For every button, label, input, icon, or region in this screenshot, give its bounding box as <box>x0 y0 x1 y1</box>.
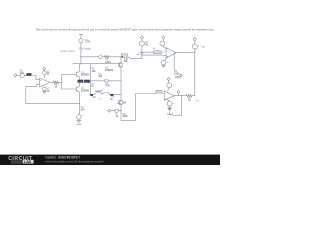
svg-text:5V: 5V <box>47 91 50 93</box>
svg-text:2N3904: 2N3904 <box>81 75 90 77</box>
svg-text:SIN: SIN <box>20 73 24 75</box>
svg-text:httb://circuitlab.com/c/2h4mxz: httb://circuitlab.com/c/2h4mxza/ansvmosf… <box>46 159 104 163</box>
svg-text:1A: 1A <box>116 115 119 118</box>
svg-text:100k: 100k <box>123 116 129 118</box>
svg-text:100k: 100k <box>174 74 180 76</box>
svg-text:This circuit uses an op-amp dr: This circuit uses an op-amp driving a pu… <box>36 28 215 32</box>
svg-text:-: - <box>167 50 168 53</box>
svg-text:-: - <box>41 85 42 88</box>
svg-text:5V: 5V <box>47 74 50 76</box>
svg-text:2N3906: 2N3906 <box>105 70 114 72</box>
svg-text:SIN: SIN <box>81 109 85 111</box>
svg-text:3.3V supply: 3.3V supply <box>79 48 92 51</box>
svg-text:2N3906: 2N3906 <box>81 90 90 92</box>
svg-text:LAB: LAB <box>24 160 32 164</box>
svg-text:out: out <box>202 46 206 49</box>
svg-text:gate drive: gate drive <box>78 80 88 83</box>
svg-text:out_5: out_5 <box>136 53 142 56</box>
svg-text:+3.3V version: +3.3V version <box>60 50 75 53</box>
svg-text:5V: 5V <box>145 44 148 46</box>
svg-text:100m: 100m <box>105 62 111 64</box>
svg-text:100uH: 100uH <box>95 90 102 93</box>
svg-text:-: - <box>165 93 166 96</box>
svg-text:3.3V: 3.3V <box>85 42 90 44</box>
